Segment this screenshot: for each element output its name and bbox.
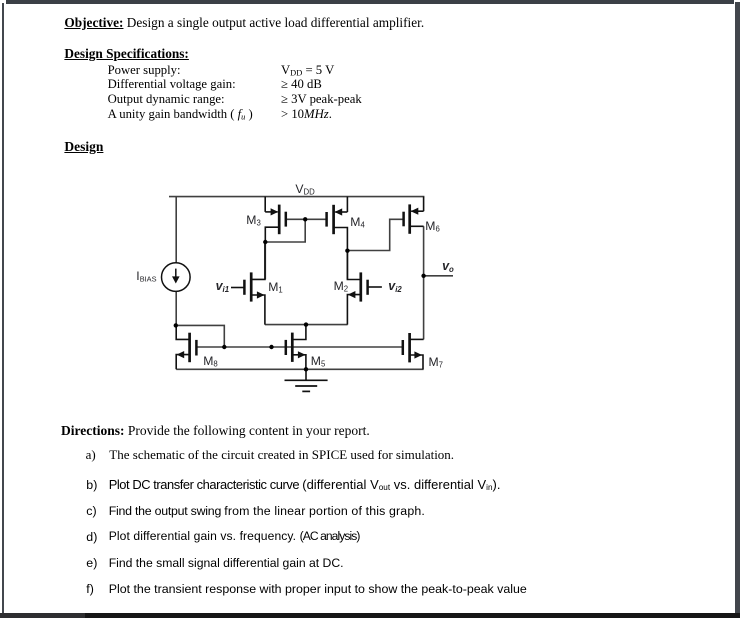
label VDD — [295, 183, 314, 199]
wire VDD to IBIAS — [175, 197, 177, 263]
item f — [86, 583, 94, 597]
page frame top bar — [6, 0, 734, 4]
item c — [86, 505, 96, 519]
page frame bottom bar — [0, 613, 740, 618]
item a — [86, 448, 96, 461]
page frame right bar — [735, 2, 740, 613]
transistor M4 — [327, 197, 348, 251]
design specifications heading — [64, 47, 188, 60]
wire M6 gate to M4 drain — [347, 219, 403, 250]
node output — [421, 274, 425, 278]
wire gate M3 M4 — [286, 218, 327, 220]
wire bottom rail — [176, 368, 423, 370]
wire M3 drain to M1 drain — [264, 242, 266, 279]
node bias mirror junction — [174, 323, 178, 327]
label M6 — [425, 220, 440, 236]
transistor M7 — [403, 333, 424, 369]
node gate bus mid — [269, 345, 273, 349]
label vo — [442, 260, 454, 277]
directions line — [61, 424, 370, 438]
label M4 — [350, 216, 365, 232]
label vi1 — [216, 280, 229, 297]
label vi2 — [388, 280, 401, 297]
transistor M2 — [347, 251, 382, 325]
label M5 — [311, 355, 326, 371]
wire gate bus — [196, 346, 402, 348]
wire tail rail — [265, 324, 348, 326]
wire M3 diode connection — [265, 219, 305, 242]
transistor M5 — [286, 325, 306, 370]
wire M6 drain to M7 drain — [423, 226, 425, 339]
wire output to vo — [424, 275, 453, 277]
transistor M1 — [231, 242, 265, 325]
objective line — [64, 16, 424, 29]
ground — [285, 369, 328, 391]
wire M4 drain to M2 drain — [346, 251, 348, 280]
node tail — [304, 322, 308, 326]
node M3 drain — [263, 240, 267, 244]
label M8 — [203, 355, 218, 371]
label M7 — [429, 356, 444, 372]
wire bias node to gate bus — [176, 325, 225, 347]
label M3 — [246, 214, 261, 230]
transistor M6 — [404, 197, 424, 234]
item e — [86, 557, 97, 571]
transistor M8 — [176, 325, 196, 369]
design heading — [64, 140, 103, 154]
label M2 — [334, 280, 349, 296]
node ground junction — [304, 367, 308, 371]
transistor M3 — [265, 197, 286, 242]
spec rows — [108, 64, 181, 77]
item b — [86, 479, 97, 493]
label IBIAS — [136, 270, 156, 286]
item d — [86, 531, 97, 545]
wire IBIAS to bias node — [175, 291, 177, 326]
node gate bus left — [222, 345, 226, 349]
node M4 drain — [345, 249, 349, 253]
page frame left line — [2, 3, 4, 613]
node M3 gate — [303, 217, 307, 221]
current source IBIAS — [162, 263, 191, 292]
label M1 — [268, 281, 283, 297]
wire VDD rail — [169, 196, 424, 198]
